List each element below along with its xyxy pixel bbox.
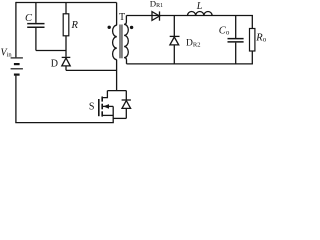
svg-text:Co: Co xyxy=(219,26,230,37)
resistor R xyxy=(63,3,69,57)
label DR1 xyxy=(150,0,163,9)
svg-text:T: T xyxy=(119,12,125,23)
label Ro xyxy=(255,32,266,43)
label C xyxy=(25,13,33,24)
diode DR1 xyxy=(152,11,160,20)
svg-text:Ro: Ro xyxy=(255,32,266,43)
label S xyxy=(89,101,95,112)
diode body of S xyxy=(122,91,131,119)
transformer polarity dot secondary xyxy=(130,26,133,29)
transformer T secondary winding xyxy=(124,16,128,64)
wire top rail primary xyxy=(16,2,117,4)
wire C bottom to R bottom xyxy=(36,50,66,52)
wire bottom rail primary xyxy=(15,122,114,124)
label D xyxy=(51,58,58,69)
label L xyxy=(196,1,203,12)
diode DR2 xyxy=(170,16,180,64)
svg-text:L: L xyxy=(196,1,203,12)
transformer T primary winding xyxy=(113,3,117,91)
transistor Q1 switch S mosfet xyxy=(99,91,113,123)
svg-text:Vin: Vin xyxy=(1,48,13,59)
wire body diode anode to source xyxy=(113,117,126,119)
inductor L xyxy=(188,11,213,15)
wire left rail lower xyxy=(15,76,17,123)
wire D anode to primary bottom xyxy=(66,69,117,71)
svg-text:R: R xyxy=(71,20,79,31)
label R xyxy=(71,20,79,31)
svg-text:D: D xyxy=(51,58,58,69)
capacitor Co xyxy=(228,16,244,64)
label T xyxy=(119,12,125,23)
label DR2 xyxy=(186,39,200,49)
label Vin xyxy=(1,48,13,59)
transformer polarity dot primary xyxy=(108,26,111,29)
label Co xyxy=(219,26,230,37)
wire left rail upper xyxy=(15,2,17,57)
svg-text:DR2: DR2 xyxy=(186,39,200,49)
wire drain node xyxy=(107,90,126,92)
transformer core xyxy=(120,25,122,59)
svg-text:S: S xyxy=(89,101,95,112)
capacitor C xyxy=(27,3,44,51)
svg-text:C: C xyxy=(25,13,33,24)
wire secondary bottom rail xyxy=(127,63,253,65)
svg-text:DR1: DR1 xyxy=(150,0,163,9)
source Vin battery xyxy=(11,58,23,75)
resistor Ro load xyxy=(250,15,255,64)
diode D xyxy=(62,57,71,70)
wire secondary top rail xyxy=(126,15,252,17)
